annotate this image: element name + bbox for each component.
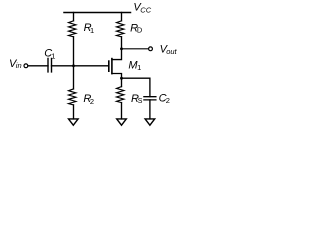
resistor RS — [117, 87, 124, 103]
svg-text:1: 1 — [51, 52, 55, 61]
wire drain down to M1 — [112, 49, 122, 60]
wire R2 bottom lead — [73, 105, 75, 119]
transistor M1 channel bar — [111, 59, 113, 74]
resistor RD — [117, 21, 124, 37]
wire M1 source — [112, 74, 122, 79]
wire source to C2 — [122, 78, 150, 97]
svg-text:1: 1 — [90, 26, 94, 35]
label C1 — [44, 48, 55, 61]
wire VCC rail — [64, 12, 131, 14]
wire gate node horizontal — [52, 65, 109, 67]
svg-text:2: 2 — [166, 96, 170, 105]
capacitor C2 — [144, 97, 156, 100]
svg-text:in: in — [16, 61, 22, 70]
wire RD top lead — [121, 13, 123, 21]
wire RD bottom lead — [121, 37, 123, 49]
svg-text:CC: CC — [140, 5, 151, 14]
wire R1 bottom lead — [73, 37, 75, 66]
capacitor C1 — [48, 59, 52, 72]
svg-text:2: 2 — [90, 97, 94, 106]
label RD — [130, 23, 143, 35]
label R1 — [84, 22, 95, 35]
node Vout terminal — [149, 47, 153, 51]
label Vout — [160, 43, 178, 56]
node drain junction — [120, 47, 123, 50]
label C2 — [159, 92, 170, 105]
wire drain to Vout — [122, 48, 149, 50]
wire C2 bottom lead — [149, 100, 151, 119]
label Vin — [9, 58, 22, 70]
transistor M1 gate bar — [108, 61, 110, 71]
label R2 — [83, 93, 94, 106]
node source junction — [120, 77, 123, 80]
label RS — [131, 93, 143, 105]
label VCC — [133, 2, 151, 15]
ground C2 — [145, 119, 155, 125]
wire RS bottom lead — [121, 103, 123, 119]
wire R1 top lead — [73, 13, 75, 21]
ground RS — [117, 119, 127, 125]
svg-text:out: out — [166, 47, 177, 56]
wire RS top lead — [121, 78, 123, 86]
ground R2 — [69, 119, 79, 125]
svg-text:1: 1 — [137, 63, 141, 72]
svg-text:D: D — [137, 26, 143, 35]
label M1 — [128, 59, 141, 72]
node gate junction — [72, 64, 75, 67]
svg-text:S: S — [138, 98, 143, 105]
wire R2 top lead — [73, 66, 75, 89]
resistor R1 — [69, 21, 76, 37]
wire Vin to C1 — [28, 65, 48, 67]
resistor R2 — [69, 89, 76, 105]
node Vin terminal — [24, 64, 28, 68]
